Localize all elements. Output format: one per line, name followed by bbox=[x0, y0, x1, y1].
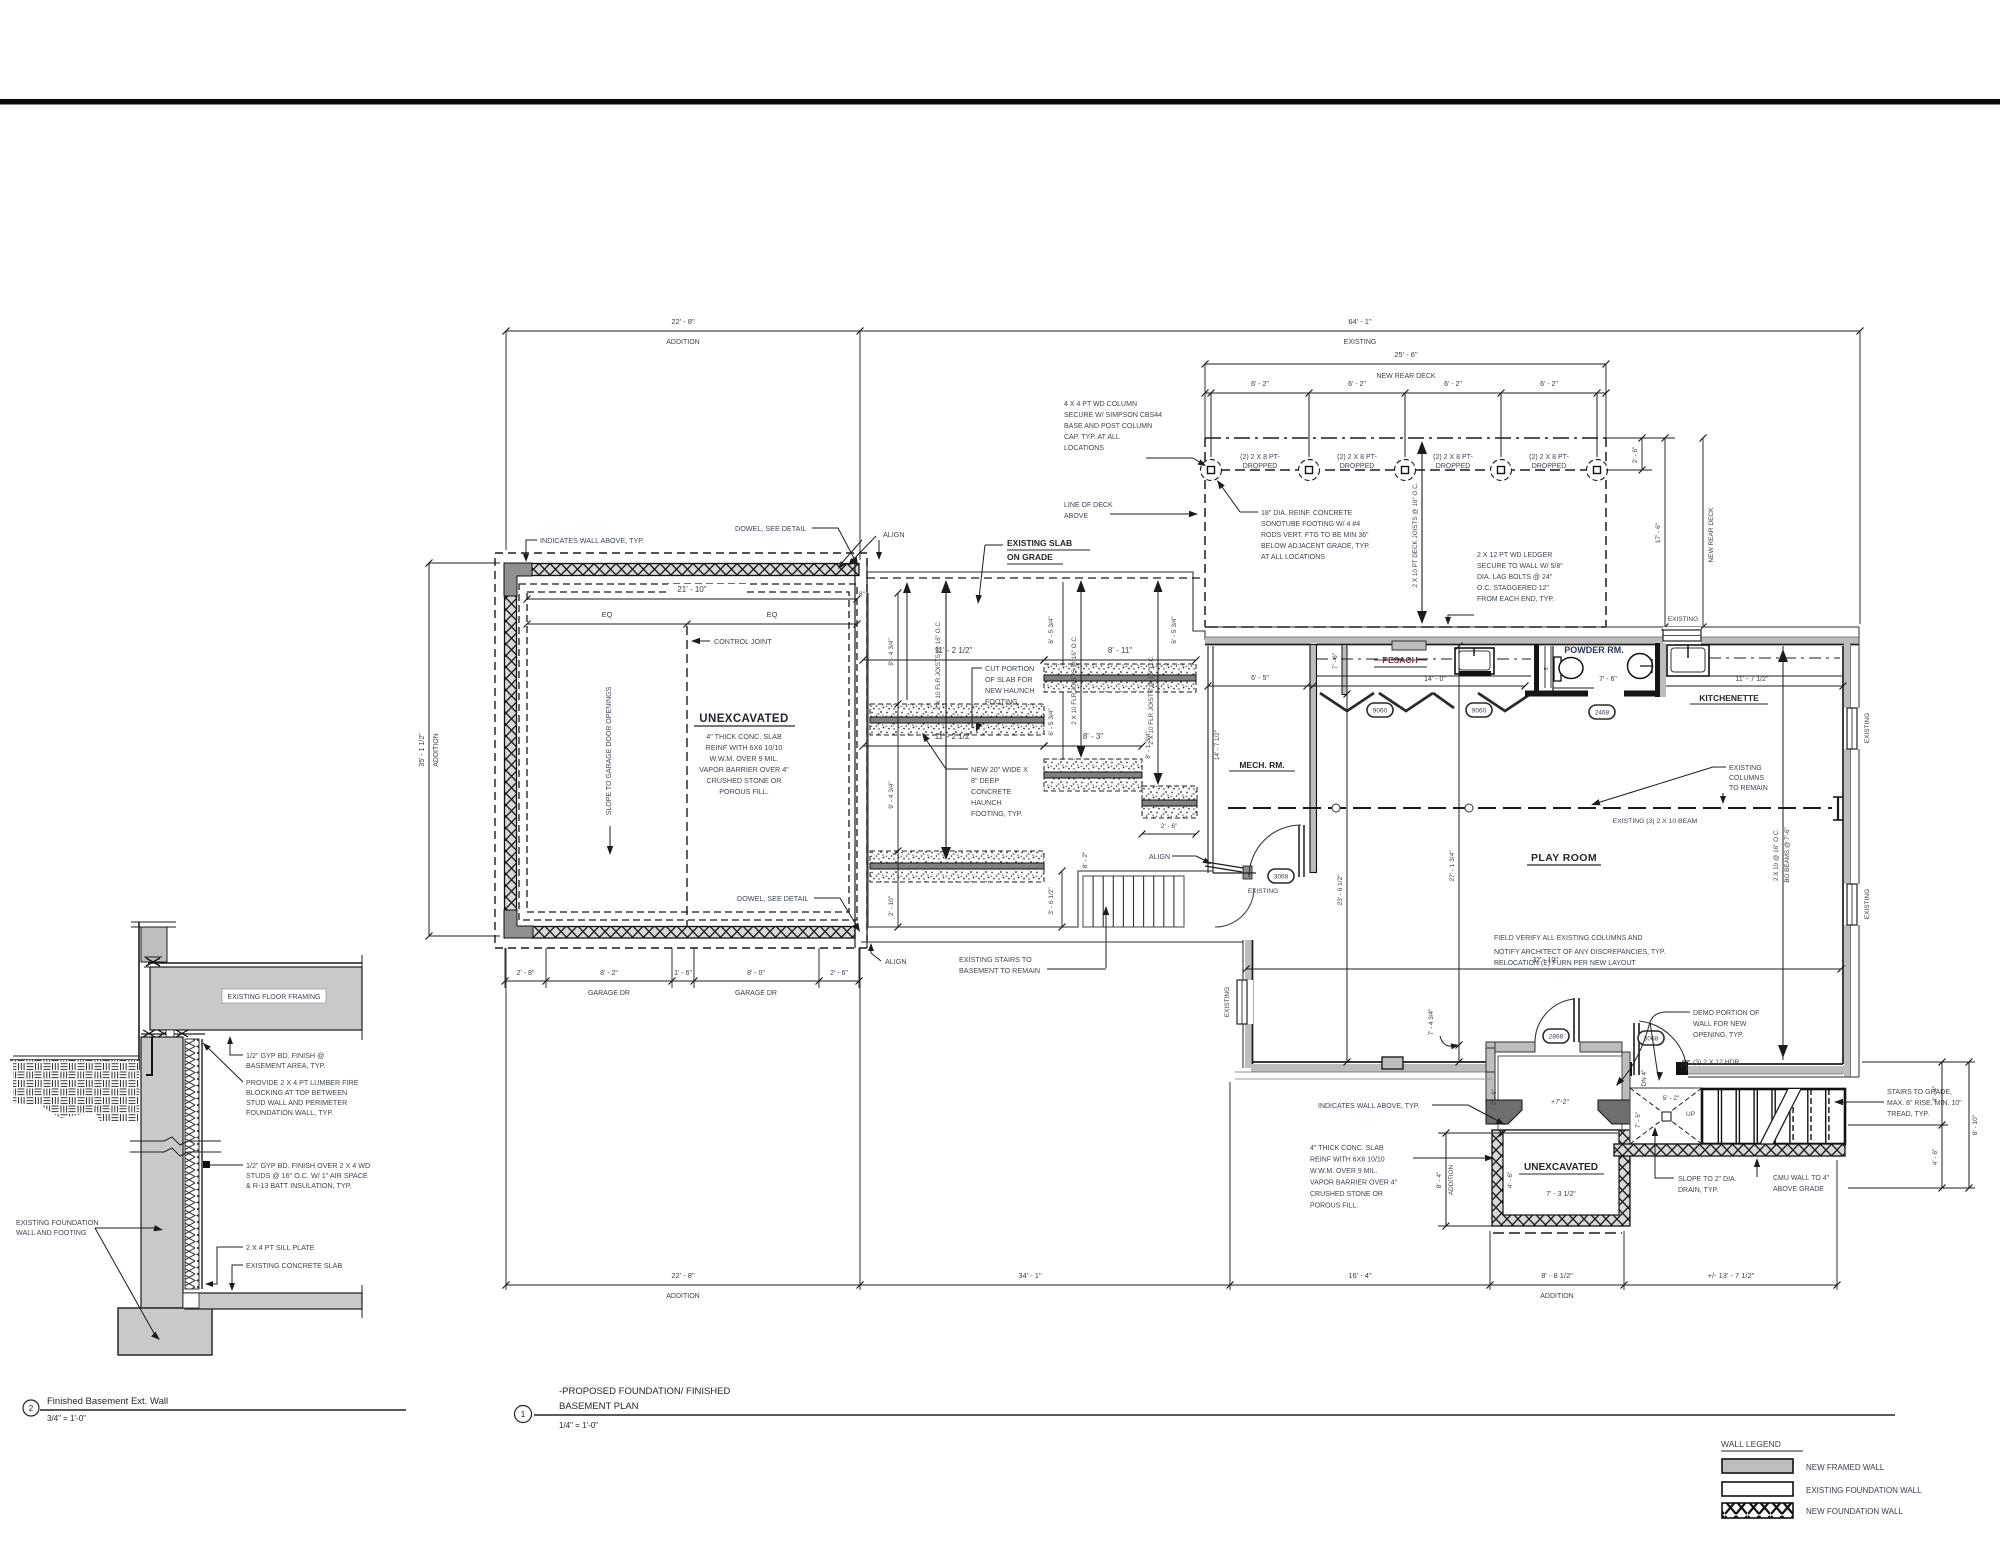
top rule bbox=[0, 99, 2000, 105]
svg-text:8' - 10": 8' - 10" bbox=[1972, 1114, 1979, 1135]
svg-text:DROPPED: DROPPED bbox=[1340, 463, 1375, 470]
svg-text:VAPOR BARRIER OVER 4": VAPOR BARRIER OVER 4" bbox=[699, 765, 789, 774]
svg-text:W.W.M. OVER 9 MIL.: W.W.M. OVER 9 MIL. bbox=[709, 754, 778, 763]
svg-text:NEW FOUNDATION WALL: NEW FOUNDATION WALL bbox=[1806, 1507, 1903, 1516]
svg-text:7' - 3 1/2": 7' - 3 1/2" bbox=[1546, 1191, 1576, 1198]
svg-text:CAP. TYP. AT ALL: CAP. TYP. AT ALL bbox=[1064, 434, 1120, 441]
dashed column line bbox=[1205, 469, 1606, 471]
svg-text:5": 5" bbox=[1544, 666, 1550, 671]
svg-text:22' - 8": 22' - 8" bbox=[671, 1271, 695, 1280]
svg-text:(2) 2 X 8 PT-: (2) 2 X 8 PT- bbox=[1337, 454, 1377, 461]
east windows bbox=[1844, 708, 1860, 749]
svg-text:4' - 4": 4' - 4" bbox=[1932, 1085, 1939, 1102]
svg-text:6' - 2": 6' - 2" bbox=[1444, 381, 1462, 388]
svg-text:EXISTING: EXISTING bbox=[1864, 889, 1871, 919]
svg-text:OPENING, TYP.: OPENING, TYP. bbox=[1693, 1032, 1744, 1039]
joist dim arrows bbox=[945, 582, 947, 858]
svg-text:+/- 13' - 7 1/2": +/- 13' - 7 1/2" bbox=[1708, 1271, 1755, 1280]
svg-text:DOWEL, SEE DETAIL: DOWEL, SEE DETAIL bbox=[735, 524, 806, 533]
deck dashed outline bbox=[1205, 437, 1606, 439]
svg-text:35' - 1 1/2": 35' - 1 1/2" bbox=[419, 733, 426, 767]
svg-text:11' - 7 1/2": 11' - 7 1/2" bbox=[1736, 676, 1769, 683]
svg-text:EXISTING: EXISTING bbox=[1668, 616, 1698, 623]
svg-text:6' - 5 3/4": 6' - 5 3/4" bbox=[1048, 708, 1055, 736]
svg-text:EXISTING: EXISTING bbox=[1864, 713, 1871, 743]
dim 21-10 bbox=[668, 584, 746, 595]
svg-text:4" THICK CONC. SLAB: 4" THICK CONC. SLAB bbox=[706, 732, 782, 741]
svg-text:2' - 6": 2' - 6" bbox=[830, 970, 848, 977]
pesach sink bbox=[1455, 648, 1494, 674]
svg-text:ALIGN: ALIGN bbox=[885, 957, 907, 966]
grade + earth hatch bbox=[13, 1055, 139, 1057]
svg-text:25' - 6": 25' - 6" bbox=[1394, 350, 1418, 359]
svg-text:2 X 10 PT DECK JOISTS @ 16" O.: 2 X 10 PT DECK JOISTS @ 16" O.C. bbox=[1412, 482, 1419, 587]
ledger tab bbox=[1392, 641, 1426, 650]
bottom corridor line bbox=[861, 941, 1243, 943]
svg-text:32' - 10": 32' - 10" bbox=[1532, 957, 1558, 964]
svg-text:2' - 8": 2' - 8" bbox=[517, 970, 535, 977]
svg-text:7' - 4 3/4": 7' - 4 3/4" bbox=[1428, 1009, 1435, 1036]
svg-text:2' - 6": 2' - 6" bbox=[1491, 1089, 1498, 1105]
svg-text:2 X 12 PT WD LEDGER: 2 X 12 PT WD LEDGER bbox=[1477, 552, 1552, 559]
svg-text:6' - 5": 6' - 5" bbox=[1251, 675, 1269, 682]
garage inner dashed (wall above) bbox=[519, 584, 857, 920]
svg-text:W.W.M. OVER 9 MIL.: W.W.M. OVER 9 MIL. bbox=[1310, 1168, 1377, 1175]
svg-text:9' - 4 3/4": 9' - 4 3/4" bbox=[888, 638, 895, 666]
svg-text:4 X 4 PT WD COLUMN: 4 X 4 PT WD COLUMN bbox=[1064, 401, 1137, 408]
svg-text:11' - 2 1/2": 11' - 2 1/2" bbox=[935, 732, 973, 741]
svg-text:FIELD VERIFY ALL EXISTING COLU: FIELD VERIFY ALL EXISTING COLUMNS AND bbox=[1494, 935, 1643, 942]
svg-text:KITCHENETTE: KITCHENETTE bbox=[1699, 693, 1759, 703]
svg-text:MAX. 8" RISE, MIN. 10": MAX. 8" RISE, MIN. 10" bbox=[1887, 1100, 1962, 1107]
powder sink bbox=[1628, 654, 1653, 679]
svg-text:O.C. STAGGERED 12": O.C. STAGGERED 12" bbox=[1477, 585, 1549, 592]
svg-text:TREAD, TYP.: TREAD, TYP. bbox=[1887, 1111, 1929, 1118]
svg-text:EXISTING FOUNDATION WALL: EXISTING FOUNDATION WALL bbox=[1806, 1486, 1922, 1495]
svg-text:1: 1 bbox=[521, 1410, 526, 1419]
2x10 bc beams dim bbox=[1782, 646, 1784, 1060]
svg-text:6' - 5 3/4": 6' - 5 3/4" bbox=[1048, 616, 1055, 644]
svg-text:BASEMENT TO REMAIN: BASEMENT TO REMAIN bbox=[959, 966, 1040, 975]
svg-text:POROUS FILL.: POROUS FILL. bbox=[719, 787, 769, 796]
dim 64-1 existing bbox=[860, 330, 1860, 332]
svg-text:(3) 2 X 12 HDR: (3) 2 X 12 HDR bbox=[1693, 1059, 1740, 1066]
svg-text:14' - 0": 14' - 0" bbox=[1424, 676, 1446, 683]
garage outer dashed boundary bbox=[495, 553, 867, 948]
svg-text:6' - 2": 6' - 2" bbox=[1540, 381, 1558, 388]
svg-text:EXISTING SLAB: EXISTING SLAB bbox=[1007, 538, 1072, 548]
sill plate w/ bolts bbox=[141, 1033, 205, 1035]
svg-text:FOOTING, TYP.: FOOTING, TYP. bbox=[971, 809, 1023, 818]
svg-text:ADDITION: ADDITION bbox=[666, 1293, 699, 1300]
svg-text:ADDITION: ADDITION bbox=[433, 733, 440, 766]
svg-text:ABOVE: ABOVE bbox=[1064, 513, 1088, 520]
svg-text:GARAGE DR: GARAGE DR bbox=[588, 990, 630, 997]
svg-text:23' - 6 1/2": 23' - 6 1/2" bbox=[1337, 874, 1344, 906]
svg-text:7' - 6": 7' - 6" bbox=[1332, 653, 1339, 669]
svg-text:DOWEL, SEE DETAIL: DOWEL, SEE DETAIL bbox=[737, 894, 808, 903]
svg-text:SLOPE TO 2" DIA.: SLOPE TO 2" DIA. bbox=[1678, 1176, 1737, 1183]
svg-text:1/2" GYP BD. FINISH OVER 2 X 4: 1/2" GYP BD. FINISH OVER 2 X 4 WD bbox=[246, 1161, 370, 1170]
svg-text:64' - 1": 64' - 1" bbox=[1348, 317, 1372, 326]
dim 25-6 new rear deck bbox=[1205, 363, 1606, 365]
svg-text:1/2" GYP BD. FINISH @: 1/2" GYP BD. FINISH @ bbox=[246, 1051, 324, 1060]
svg-text:EXISTING: EXISTING bbox=[1248, 888, 1278, 895]
svg-text:3' - 6 1/2": 3' - 6 1/2" bbox=[1048, 887, 1055, 915]
svg-text:SLOPE TO GARAGE DOOR OPENINGS: SLOPE TO GARAGE DOOR OPENINGS bbox=[606, 686, 613, 815]
svg-text:MECH. RM.: MECH. RM. bbox=[1239, 760, 1284, 770]
svg-text:CMU WALL TO 4": CMU WALL TO 4" bbox=[1773, 1175, 1830, 1182]
svg-text:HAUNCH: HAUNCH bbox=[971, 798, 1002, 807]
stud wall + insulation bbox=[185, 1039, 199, 1289]
svg-text:2 X 10 FLR JOISTS @ 16" O.C.: 2 X 10 FLR JOISTS @ 16" O.C. bbox=[1071, 635, 1078, 725]
svg-text:7' - 6": 7' - 6" bbox=[1599, 676, 1617, 683]
svg-text:EXISTING (3) 2 X 10 BEAM: EXISTING (3) 2 X 10 BEAM bbox=[1613, 818, 1698, 825]
gray band right of powder wall bbox=[1660, 643, 1666, 697]
svg-text:8' - 0": 8' - 0" bbox=[747, 970, 765, 977]
svg-text:11' - 2 1/2": 11' - 2 1/2" bbox=[935, 646, 973, 655]
toilet bbox=[1554, 657, 1561, 681]
slab bbox=[185, 1293, 362, 1309]
footing bbox=[118, 1308, 212, 1355]
svg-text:ADDITION: ADDITION bbox=[1448, 1165, 1455, 1196]
svg-text:+7'-2": +7'-2" bbox=[1551, 1099, 1570, 1106]
slab boundary bbox=[868, 593, 1213, 927]
svg-text:6' - 2": 6' - 2" bbox=[1251, 381, 1269, 388]
svg-text:LOCATIONS: LOCATIONS bbox=[1064, 445, 1104, 452]
svg-text:2 X 4 PT SILL PLATE: 2 X 4 PT SILL PLATE bbox=[246, 1243, 315, 1252]
interior vertical dims bbox=[1346, 694, 1348, 1062]
svg-text:EXISTING STAIRS TO: EXISTING STAIRS TO bbox=[959, 955, 1032, 964]
svg-text:WALL AND FOOTING: WALL AND FOOTING bbox=[16, 1228, 87, 1237]
svg-text:2' - 6": 2' - 6" bbox=[1161, 823, 1178, 830]
kitchenette bbox=[1667, 645, 1709, 676]
svg-text:CUT PORTION: CUT PORTION bbox=[985, 664, 1034, 673]
splay + arc door at stair right bbox=[1206, 862, 1243, 868]
svg-text:UNEXCAVATED: UNEXCAVATED bbox=[699, 713, 788, 725]
svg-text:2468: 2468 bbox=[1595, 710, 1610, 717]
svg-text:BASE AND POST COLUMN: BASE AND POST COLUMN bbox=[1064, 423, 1152, 430]
svg-text:FROM EACH END, TYP.: FROM EACH END, TYP. bbox=[1477, 596, 1554, 603]
32-10 dim bbox=[1246, 968, 1841, 970]
svg-text:REINF WITH 6X6 10/10: REINF WITH 6X6 10/10 bbox=[1310, 1157, 1385, 1164]
svg-text:ADDITION: ADDITION bbox=[1540, 1293, 1573, 1300]
garage door dims bbox=[504, 948, 506, 988]
svg-text:8' - 2": 8' - 2" bbox=[1082, 851, 1089, 868]
svg-text:SECURE TO WALL W/ 5/8": SECURE TO WALL W/ 5/8" bbox=[1477, 563, 1563, 570]
svg-text:8' - 1 3/4": 8' - 1 3/4" bbox=[1145, 731, 1152, 759]
svg-text:5' - 2": 5' - 2" bbox=[1663, 1095, 1680, 1102]
foundation wall bbox=[141, 1037, 183, 1308]
svg-text:8' - 2": 8' - 2" bbox=[600, 970, 618, 977]
floor framing bbox=[150, 967, 362, 1030]
south wall east segment bbox=[1688, 1076, 1859, 1078]
svg-text:8' - 11": 8' - 11" bbox=[1108, 646, 1132, 655]
landing w/ X drain bbox=[1630, 1088, 1702, 1144]
svg-text:9060: 9060 bbox=[1472, 708, 1487, 715]
svg-text:VAPOR BARRIER OVER 4": VAPOR BARRIER OVER 4" bbox=[1310, 1180, 1398, 1187]
svg-text:FOOTING: FOOTING bbox=[985, 697, 1018, 706]
svg-text:2' - 6": 2' - 6" bbox=[1632, 446, 1639, 463]
svg-text:PLAY ROOM: PLAY ROOM bbox=[1531, 852, 1597, 864]
svg-text:LINE OF DECK: LINE OF DECK bbox=[1064, 502, 1113, 509]
svg-text:3/4" = 1'-0": 3/4" = 1'-0" bbox=[47, 1414, 86, 1423]
dim EQ EQ bbox=[527, 623, 857, 625]
beam end column symbol bbox=[1833, 796, 1843, 798]
svg-text:DRAIN, TYP.: DRAIN, TYP. bbox=[1678, 1187, 1718, 1194]
svg-text:4' - 6": 4' - 6" bbox=[1932, 1148, 1939, 1165]
door 3068 at landing bbox=[1626, 1062, 1632, 1076]
dim 22-8 addition bbox=[506, 330, 860, 332]
svg-text:2868: 2868 bbox=[1549, 1034, 1564, 1041]
svg-text:ADDITION: ADDITION bbox=[666, 339, 699, 346]
svg-text:14' - 7 1/2": 14' - 7 1/2" bbox=[1214, 730, 1221, 760]
east wall bbox=[1858, 627, 1860, 1077]
svg-text:DEMO PORTION OF: DEMO PORTION OF bbox=[1693, 1010, 1759, 1017]
pesach counter + dashline bbox=[1316, 675, 1531, 677]
svg-text:(2) 2 X 8 PT-: (2) 2 X 8 PT- bbox=[1529, 454, 1569, 461]
left pit dims bbox=[1445, 1133, 1447, 1226]
svg-text:27' - 1 3/4": 27' - 1 3/4" bbox=[1449, 850, 1456, 882]
new foundation wall: garage left bbox=[505, 595, 517, 914]
svg-text:EQ: EQ bbox=[602, 610, 613, 619]
svg-text:NEW 20" WIDE X: NEW 20" WIDE X bbox=[971, 765, 1028, 774]
svg-text:3068: 3068 bbox=[1274, 874, 1289, 881]
framed corner BL bbox=[504, 910, 533, 938]
svg-text:RODS VERT. FTG TO BE MIN 36": RODS VERT. FTG TO BE MIN 36" bbox=[1261, 532, 1369, 539]
svg-text:-PROPOSED FOUNDATION/ FINISHED: -PROPOSED FOUNDATION/ FINISHED bbox=[559, 1386, 731, 1397]
svg-text:9' - 4 3/4": 9' - 4 3/4" bbox=[888, 781, 895, 809]
svg-text:16' - 4": 16' - 4" bbox=[1348, 1271, 1372, 1280]
anchor rod bbox=[146, 1037, 152, 1075]
band dims bbox=[863, 659, 1044, 661]
svg-text:SONOTUBE FOOTING W/ 4 #4: SONOTUBE FOOTING W/ 4 #4 bbox=[1261, 521, 1360, 528]
svg-text:1/4" = 1'-0": 1/4" = 1'-0" bbox=[559, 1421, 598, 1430]
svg-text:21' - 10": 21' - 10" bbox=[677, 585, 706, 594]
svg-text:UNEXCAVATED: UNEXCAVATED bbox=[1524, 1162, 1598, 1173]
column spacing dims bbox=[1205, 392, 1606, 394]
svg-text:INDICATES WALL ABOVE, TYP.: INDICATES WALL ABOVE, TYP. bbox=[540, 536, 644, 545]
svg-text:4' - 6": 4' - 6" bbox=[1507, 1171, 1514, 1188]
svg-text:BASEMENT AREA, TYP.: BASEMENT AREA, TYP. bbox=[246, 1061, 326, 1070]
svg-text:4" THICK CONC. SLAB: 4" THICK CONC. SLAB bbox=[1310, 1145, 1384, 1152]
svg-text:BLOCKING AT TOP BETWEEN: BLOCKING AT TOP BETWEEN bbox=[246, 1088, 347, 1097]
title: detail 2 bbox=[23, 1400, 39, 1416]
haunch band A bbox=[870, 704, 1044, 735]
svg-text:& R-13 BATT INSULATION, TYP.: & R-13 BATT INSULATION, TYP. bbox=[246, 1181, 352, 1190]
powder room bbox=[1534, 644, 1539, 691]
beam dashed line bbox=[1228, 807, 1832, 809]
svg-text:8" DEEP: 8" DEEP bbox=[971, 776, 999, 785]
svg-text:9060: 9060 bbox=[1373, 708, 1388, 715]
svg-text:BO BEAMS @ 7'-6": BO BEAMS @ 7'-6" bbox=[1784, 827, 1791, 882]
haunch band E bbox=[1142, 786, 1197, 818]
svg-text:CRUSHED STONE OR: CRUSHED STONE OR bbox=[1310, 1191, 1383, 1198]
svg-text:17' - 6": 17' - 6" bbox=[1655, 522, 1662, 543]
svg-text:18" DIA. REINF. CONCRETE: 18" DIA. REINF. CONCRETE bbox=[1261, 510, 1352, 517]
svg-text:(2) 2 X 8 PT-: (2) 2 X 8 PT- bbox=[1433, 454, 1473, 461]
vent rect in south wall bbox=[1382, 1057, 1403, 1069]
svg-text:NEW FRAMED WALL: NEW FRAMED WALL bbox=[1806, 1463, 1885, 1472]
svg-text:NEW REAR DECK: NEW REAR DECK bbox=[1376, 373, 1435, 380]
svg-text:DROPPED: DROPPED bbox=[1436, 463, 1471, 470]
north window bbox=[1663, 627, 1701, 646]
svg-text:BASEMENT PLAN: BASEMENT PLAN bbox=[559, 1401, 639, 1412]
svg-text:EQ: EQ bbox=[767, 610, 778, 619]
svg-text:Finished Basement Ext. Wall: Finished Basement Ext. Wall bbox=[47, 1396, 168, 1407]
deck joist dim vertical bbox=[1421, 445, 1423, 620]
svg-text:GARAGE DR: GARAGE DR bbox=[735, 990, 777, 997]
svg-text:NEW REAR DECK: NEW REAR DECK bbox=[1708, 507, 1715, 563]
demo header segment bbox=[1676, 1062, 1688, 1075]
west window bbox=[1243, 980, 1253, 1024]
alcove side walls bbox=[1486, 1042, 1495, 1102]
svg-text:2 X 10 @ 16" O.C.: 2 X 10 @ 16" O.C. bbox=[1773, 829, 1780, 881]
svg-text:8' - 4": 8' - 4" bbox=[1436, 1171, 1443, 1188]
svg-text:OF SLAB FOR: OF SLAB FOR bbox=[985, 675, 1033, 684]
svg-text:8' - 3": 8' - 3" bbox=[1083, 732, 1104, 741]
svg-text:34' - 1": 34' - 1" bbox=[1018, 1271, 1042, 1280]
MECH RM east wall (new framed) bbox=[1310, 645, 1317, 873]
svg-text:POWDER RM.: POWDER RM. bbox=[1564, 645, 1624, 655]
svg-text:INDICATES WALL ABOVE, TYP.: INDICATES WALL ABOVE, TYP. bbox=[1318, 1103, 1419, 1110]
svg-text:RELOCATION (E) FURN PER NEW LA: RELOCATION (E) FURN PER NEW LAYOUT bbox=[1494, 960, 1636, 967]
right side dims bbox=[1941, 1062, 1943, 1188]
svg-text:EXISTING FLOOR FRAMING: EXISTING FLOOR FRAMING bbox=[228, 994, 321, 1001]
CMU wall bbox=[1614, 1144, 1845, 1156]
svg-text:6' - 5 3/4": 6' - 5 3/4" bbox=[1171, 616, 1178, 644]
svg-text:2' - 10": 2' - 10" bbox=[888, 895, 895, 916]
svg-text:8": 8" bbox=[859, 591, 866, 598]
svg-text:UP: UP bbox=[1686, 1111, 1695, 1118]
west wall playroom bbox=[1245, 940, 1252, 1068]
haunch band C bbox=[870, 851, 1044, 882]
svg-text:(2) 2 X 8 PT-: (2) 2 X 8 PT- bbox=[1240, 454, 1280, 461]
svg-text:DROPPED: DROPPED bbox=[1243, 463, 1278, 470]
svg-text:CRUSHED STONE OR: CRUSHED STONE OR bbox=[707, 776, 782, 785]
bolt at sill top bbox=[146, 958, 160, 966]
existing wall strip garage right bbox=[854, 564, 856, 948]
svg-text:22' - 8": 22' - 8" bbox=[671, 317, 695, 326]
framed corner TL bbox=[504, 563, 532, 596]
pit bottom dashed bbox=[1493, 1232, 1622, 1234]
svg-text:COLUMNS: COLUMNS bbox=[1729, 775, 1764, 782]
svg-text:SECURE W/ SIMPSON CBS44: SECURE W/ SIMPSON CBS44 bbox=[1064, 412, 1162, 419]
svg-text:TO REMAIN: TO REMAIN bbox=[1729, 785, 1768, 792]
keyway bbox=[183, 1293, 199, 1308]
stairs to grade bbox=[1702, 1089, 1845, 1144]
svg-text:FOUNDATION WALL, TYP.: FOUNDATION WALL, TYP. bbox=[246, 1108, 333, 1117]
svg-text:WALL FOR NEW: WALL FOR NEW bbox=[1693, 1021, 1747, 1028]
wall break symbol bbox=[130, 1137, 221, 1145]
dims under pesach band bbox=[1208, 685, 1313, 687]
existing stairs bbox=[1083, 876, 1184, 927]
svg-text:EXISTING: EXISTING bbox=[1729, 765, 1762, 772]
svg-text:6' - 2": 6' - 2" bbox=[1348, 381, 1366, 388]
door 3068 existing at mech rm bbox=[1298, 825, 1300, 877]
svg-text:PROVIDE 2 X 4 PT LUMBER FIRE: PROVIDE 2 X 4 PT LUMBER FIRE bbox=[246, 1078, 359, 1087]
svg-text:2 X 10 FLR JOISTS @ 16" O.C.: 2 X 10 FLR JOISTS @ 16" O.C. bbox=[1148, 655, 1155, 745]
svg-text:DIA. LAG BOLTS @ 24": DIA. LAG BOLTS @ 24" bbox=[1477, 574, 1553, 581]
haunch band B bbox=[1044, 664, 1196, 692]
left vertical dim 35-1 addition bbox=[428, 563, 430, 936]
svg-text:ALIGN: ALIGN bbox=[1149, 854, 1170, 861]
svg-text:ALIGN: ALIGN bbox=[883, 530, 905, 539]
svg-text:ON GRADE: ON GRADE bbox=[1007, 552, 1053, 562]
svg-text:NOTIFY ARCHITECT OF ANY DISCRE: NOTIFY ARCHITECT OF ANY DISCREPANCIES, T… bbox=[1494, 949, 1666, 956]
haunch band D bbox=[1044, 759, 1142, 791]
svg-text:EXISTING: EXISTING bbox=[1224, 987, 1231, 1017]
stair vertical dim bbox=[1061, 871, 1063, 927]
unexcavated pit bbox=[1492, 1130, 1630, 1226]
new foundation wall: garage bottom bbox=[532, 927, 855, 939]
wall-above dark corners bbox=[1486, 1100, 1522, 1124]
svg-text:NEW HAUNCH: NEW HAUNCH bbox=[985, 686, 1035, 695]
svg-text:1' - 6": 1' - 6" bbox=[674, 970, 692, 977]
svg-text:REINF WITH 6X6 10/10: REINF WITH 6X6 10/10 bbox=[706, 743, 783, 752]
south-west wall segment bbox=[1251, 1064, 1486, 1072]
svg-text:8' - 8 1/2": 8' - 8 1/2" bbox=[1541, 1271, 1573, 1280]
svg-text:DROPPED: DROPPED bbox=[1532, 463, 1567, 470]
svg-text:2 X 10 FLR JOISTS @ 16" O.C.: 2 X 10 FLR JOISTS @ 16" O.C. bbox=[935, 620, 942, 710]
svg-text:WALL LEGEND: WALL LEGEND bbox=[1721, 1439, 1781, 1449]
svg-text:DN 4": DN 4" bbox=[1641, 1070, 1648, 1087]
svg-text:7' - 6": 7' - 6" bbox=[1635, 1112, 1642, 1128]
svg-text:2: 2 bbox=[29, 1404, 34, 1413]
PESACH west wall bbox=[1342, 645, 1347, 695]
alcove interior bbox=[1498, 1056, 1622, 1130]
north wall bbox=[1205, 626, 1859, 628]
zigzag bifold doors bbox=[1320, 693, 1532, 711]
new foundation wall: garage top bbox=[513, 564, 859, 576]
svg-text:BELOW ADJACENT GRADE, TYP.: BELOW ADJACENT GRADE, TYP. bbox=[1261, 543, 1370, 550]
svg-text:CONCRETE: CONCRETE bbox=[971, 787, 1012, 796]
control joint bbox=[686, 626, 688, 926]
svg-text:AT ALL LOCATIONS: AT ALL LOCATIONS bbox=[1261, 554, 1325, 561]
svg-text:CONTROL JOINT: CONTROL JOINT bbox=[714, 637, 772, 646]
svg-text:POROUS FILL.: POROUS FILL. bbox=[1310, 1203, 1358, 1210]
svg-text:EXISTING FOUNDATION: EXISTING FOUNDATION bbox=[16, 1218, 99, 1227]
svg-text:EXISTING CONCRETE SLAB: EXISTING CONCRETE SLAB bbox=[246, 1261, 342, 1270]
MECH RM west wall (existing) bbox=[1207, 646, 1209, 873]
svg-text:ABOVE GRADE: ABOVE GRADE bbox=[1773, 1186, 1824, 1193]
svg-text:EXISTING: EXISTING bbox=[1344, 339, 1377, 346]
dashed top continuation bbox=[867, 577, 1205, 579]
chain dim x898 bbox=[897, 593, 899, 927]
svg-text:STUDS @ 16" O.C. W/ 1" AIR SPA: STUDS @ 16" O.C. W/ 1" AIR SPACE bbox=[246, 1171, 368, 1180]
alcove north walls + door 2868 bbox=[1495, 1042, 1535, 1052]
section: rim/col top bbox=[131, 921, 176, 923]
deck dims right bbox=[1641, 438, 1643, 470]
title: plan 1 bbox=[515, 1406, 532, 1423]
svg-text:STUD WALL AND PERIMETER: STUD WALL AND PERIMETER bbox=[246, 1098, 347, 1107]
